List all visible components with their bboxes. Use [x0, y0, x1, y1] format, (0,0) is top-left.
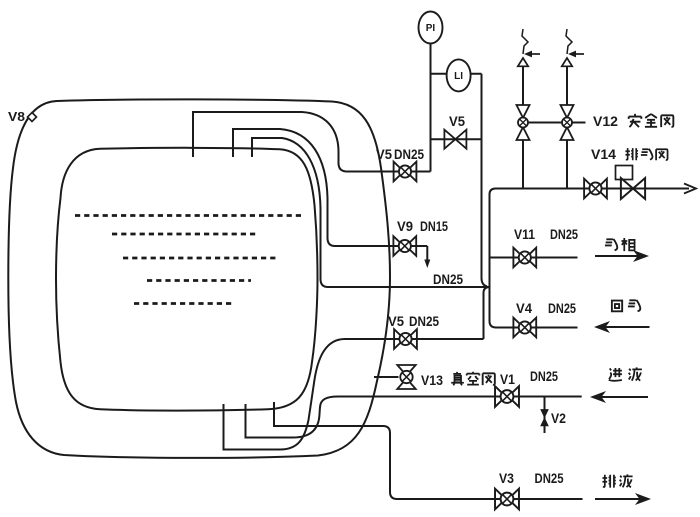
- svg-text:V5: V5: [388, 314, 404, 329]
- svg-text:DN25: DN25: [394, 147, 424, 162]
- V4 return gas line: [496, 327, 578, 329]
- valve V9: [393, 236, 416, 256]
- LI tee line: [431, 73, 482, 75]
- three-way valve 1: [517, 105, 530, 140]
- arrow gas phase out: [633, 250, 649, 262]
- svg-text:V12: V12: [593, 114, 618, 129]
- pipe Q1 (bottom to V5 DN25 lower): [224, 339, 484, 450]
- valve V3: [495, 489, 519, 510]
- label 气相: [605, 238, 635, 251]
- safety relief valve 1: [518, 29, 540, 66]
- svg-text:DN25: DN25: [550, 227, 578, 242]
- liquid level dashed line row 2: [112, 233, 257, 236]
- svg-text:V5: V5: [449, 114, 465, 129]
- svg-text:DN25: DN25: [409, 314, 439, 329]
- valve V5 DN25 lower: [394, 329, 417, 349]
- svg-text:V9: V9: [397, 219, 413, 234]
- V5 bypass line: [431, 138, 482, 140]
- inner tank: [56, 148, 318, 411]
- return gas arrow line: [604, 326, 650, 328]
- arrow return gas in: [594, 321, 610, 333]
- liquid in arrow line: [601, 396, 648, 398]
- V9 arrowhead: [424, 260, 430, 269]
- svg-text:PI: PI: [426, 23, 436, 34]
- three-way valve 2: [561, 105, 574, 140]
- V11 gas phase line: [490, 257, 578, 259]
- valve V13 vacuum: [397, 365, 415, 389]
- arrow drain out: [635, 493, 651, 505]
- safety relief valve 2: [562, 29, 584, 66]
- pipe P1 top (to V5 DN25 / PI): [193, 112, 431, 172]
- valve V5 DN25 upper: [394, 162, 417, 182]
- vent header V14 line: [496, 188, 690, 190]
- PI gauge line: [430, 44, 432, 172]
- label 排气阀: [625, 148, 667, 160]
- svg-text:DN25: DN25: [433, 272, 463, 287]
- riser from bottom V5 line to junction: [484, 287, 490, 339]
- liquid level dashed line row 5: [134, 302, 233, 305]
- pipe P2 (to V9): [233, 129, 427, 246]
- gas phase arrow line: [595, 255, 638, 257]
- svg-text:DN15: DN15: [420, 219, 448, 234]
- svg-text:V11: V11: [514, 227, 535, 242]
- LI down line with jog into junction: [482, 74, 488, 287]
- PI gauge: [419, 12, 443, 44]
- valve V4: [513, 318, 536, 338]
- label 排液: [602, 474, 632, 487]
- label 回气: [612, 300, 640, 311]
- valve V5 top bypass: [444, 130, 466, 149]
- V14 actuator box: [616, 166, 633, 180]
- svg-text:DN25: DN25: [530, 369, 558, 384]
- V2 stub: [544, 397, 546, 434]
- valve V11: [513, 248, 536, 268]
- arrow vent out: [684, 184, 696, 194]
- manifold vertical: [490, 189, 497, 328]
- svg-text:DN25: DN25: [548, 301, 576, 316]
- svg-text:V14: V14: [591, 147, 617, 162]
- svg-text:V4: V4: [516, 301, 532, 316]
- svg-text:V3: V3: [499, 471, 514, 486]
- svg-text:DN25: DN25: [535, 471, 564, 486]
- liquid level dashed line row 1: [75, 214, 302, 217]
- svg-text:V2: V2: [551, 411, 566, 426]
- LI gauge: [447, 59, 471, 91]
- svg-text:V1: V1: [500, 372, 515, 387]
- valve V14 vent body: [621, 178, 645, 199]
- label 进液: [609, 367, 642, 380]
- label 真空阀: [451, 372, 495, 386]
- valve V2: [541, 410, 548, 426]
- V9 drain stub with arrow: [426, 246, 428, 261]
- svg-text:V5: V5: [376, 147, 392, 162]
- arrow liquid in: [590, 391, 606, 403]
- pipe P3 (DN25 to junction): [252, 138, 490, 287]
- pipe Q3 drain to V3: [274, 402, 583, 499]
- safety branch 1 riser: [522, 67, 524, 189]
- valve V14 globe: [584, 179, 607, 199]
- valve V1: [495, 386, 519, 407]
- V8 diamond: [28, 113, 37, 122]
- label 安全阀: [629, 114, 674, 127]
- svg-text:LI: LI: [454, 71, 463, 82]
- liquid level dashed line row 4: [147, 279, 251, 282]
- svg-text:V13: V13: [421, 373, 443, 388]
- pipe Q2 (bottom to V1 liquid in): [246, 397, 582, 438]
- outer vacuum shell: [8, 99, 390, 458]
- safety connector line: [523, 122, 586, 124]
- drain arrow line: [595, 498, 640, 500]
- svg-text:V8: V8: [8, 109, 25, 124]
- safety branch 2 riser: [566, 67, 568, 189]
- V13 vacuum tap line: [374, 376, 399, 378]
- liquid level dashed line row 3: [123, 257, 276, 260]
